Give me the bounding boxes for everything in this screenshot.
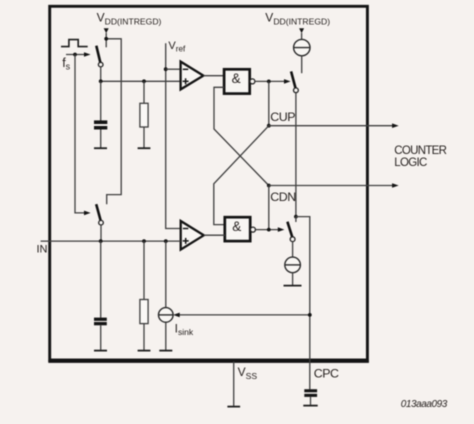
wire CS2 bottom lead bbox=[292, 273, 294, 285]
arrowhead G1 output bbox=[284, 79, 291, 84]
wire below S2 bbox=[100, 225, 102, 241]
arrowhead fs bottom bbox=[84, 211, 91, 216]
svg-text:COUNTER: COUNTER bbox=[394, 145, 446, 157]
arrowhead fs top bbox=[84, 52, 91, 57]
svg-text:IN: IN bbox=[37, 244, 48, 256]
wire VDD2 stub bbox=[301, 33, 303, 39]
chip boundary bottom edge thickening bbox=[48, 360, 369, 363]
wire CDN down to G2 output node bbox=[268, 186, 270, 230]
junction dot IN at R2 bbox=[142, 239, 146, 243]
wire junction to CPC riser bbox=[296, 217, 310, 390]
arrowhead G2 output bbox=[278, 227, 285, 232]
current source Isink top lead bbox=[165, 241, 167, 308]
wire Isink control line bbox=[178, 314, 310, 316]
arrowhead Isink control bbox=[173, 313, 180, 318]
node CUP junction dot bbox=[267, 124, 271, 128]
capacitor CPC plates bbox=[304, 389, 317, 392]
chip boundary box bbox=[50, 6, 368, 360]
wire U2 output bbox=[204, 234, 225, 236]
node VDD(INTREGD) right terminal triangle bbox=[299, 28, 304, 33]
arrowhead CUP bbox=[392, 123, 399, 128]
svg-text:&: & bbox=[232, 71, 241, 86]
svg-text:VSS: VSS bbox=[238, 365, 258, 381]
capacitor C1 plates bbox=[94, 120, 107, 124]
node VDD(INTREGD) left terminal triangle bbox=[104, 28, 109, 33]
capacitor C2 bottom lead bbox=[100, 325, 102, 350]
plus sign U2 bbox=[183, 240, 189, 242]
node CDN junction dot bbox=[267, 184, 271, 188]
ground rail under R1 bbox=[138, 147, 151, 149]
switch S4 (discharge) arm bbox=[287, 222, 292, 237]
current source Isink bbox=[159, 308, 174, 323]
wire below S1 bbox=[100, 67, 102, 82]
resistor R2 bottom lead bbox=[143, 324, 145, 350]
capacitor C1 bottom lead bbox=[100, 130, 102, 148]
switch S2 pivot circle bbox=[99, 220, 104, 225]
current source CS2 (discharge) bbox=[285, 257, 301, 273]
capacitor C2 top lead bbox=[100, 241, 102, 318]
minus sign U1 bbox=[183, 68, 188, 70]
wire G1 lower input from cross-coupling bbox=[214, 87, 269, 185]
wire CUP output line bbox=[269, 125, 394, 127]
ground rail under Isink bbox=[159, 350, 172, 352]
ground rail under C1 bbox=[94, 147, 107, 149]
wire sample node horizontal bbox=[101, 80, 181, 82]
resistor R2 body bbox=[140, 300, 148, 324]
junction dot G1 output bbox=[267, 80, 271, 84]
wire IN line bbox=[41, 240, 181, 242]
junction dot IN at C2 bbox=[99, 239, 103, 243]
junction dot IN at Isink bbox=[164, 239, 168, 243]
switch S1 pivot circle bbox=[98, 62, 103, 67]
wire S4 contact stub bbox=[295, 217, 297, 222]
resistor R1 body bbox=[140, 103, 148, 127]
capacitor C1 top lead bbox=[100, 81, 102, 121]
resistor R2 top lead bbox=[143, 241, 145, 299]
bubble G2 output bbox=[250, 227, 255, 232]
wire G1 output to switch S3 bbox=[255, 80, 287, 82]
switch S2 (sampling, at IN) arm bbox=[96, 204, 100, 220]
junction dot fs bbox=[73, 53, 77, 57]
wire G2 output to switch S4 bbox=[255, 229, 280, 231]
wire Isink bottom lead bbox=[165, 322, 167, 350]
wire VDD1 branch right bbox=[106, 39, 121, 205]
AND gate G2 (bottom) bbox=[225, 217, 250, 241]
svg-text:CPC: CPC bbox=[314, 367, 339, 381]
junction dot Vref / comparator 1 bbox=[164, 67, 168, 71]
junction dot lower-right bbox=[294, 215, 298, 219]
capacitor CPC bottom lead bbox=[310, 397, 312, 405]
wire fs arrow line top bbox=[66, 54, 86, 56]
wire S4 to CS2 bbox=[292, 242, 294, 258]
switch S1 (sampling, top left) arm bbox=[96, 46, 100, 63]
svg-text:013aaa093: 013aaa093 bbox=[401, 399, 448, 410]
wire CS1 to switch S3 contact bbox=[301, 56, 303, 73]
op-amp comparator U1 (top) bbox=[181, 62, 204, 90]
ground rail under R2 bbox=[138, 350, 151, 352]
op-amp comparator U2 (bottom) bbox=[181, 221, 204, 250]
wire G1 output down to CUP bbox=[268, 81, 270, 125]
arrowhead CDN bbox=[392, 183, 399, 188]
ground rail under CS2 bbox=[284, 285, 302, 287]
switch S4 pivot circle bbox=[290, 237, 295, 242]
wire S3 down through CUP/CDN to lower-right junction bbox=[295, 93, 297, 217]
ground rail under CPC cap bbox=[303, 405, 317, 407]
bubble G1 output bbox=[250, 79, 255, 84]
wire cross-coupling CUP to G2 input bbox=[214, 126, 269, 225]
junction dot node1 at R1 bbox=[142, 79, 146, 83]
junction dot node1 at C1 bbox=[99, 79, 103, 83]
pin VSS lead bbox=[233, 362, 235, 406]
svg-text:CDN: CDN bbox=[270, 190, 295, 204]
svg-text:LOGIC: LOGIC bbox=[394, 157, 427, 169]
plus sign U1 bbox=[183, 80, 189, 82]
junction dot G2 output bbox=[267, 228, 271, 232]
node Vref vertical line bbox=[166, 43, 181, 228]
wire VDD1 stub bbox=[105, 33, 107, 47]
AND gate G1 (top) bbox=[224, 69, 250, 93]
switch S3 arm bbox=[291, 71, 295, 88]
rail VSS terminal bbox=[227, 406, 240, 408]
wire U1 output bbox=[203, 75, 224, 77]
wire CDN output line bbox=[269, 185, 394, 187]
junction dot CPC riser bbox=[308, 313, 312, 317]
wire Vref to comparator 1 minus input bbox=[166, 68, 181, 70]
ground rail under C2 bbox=[94, 350, 107, 352]
svg-text:CUP: CUP bbox=[270, 110, 295, 124]
minus sign U2 bbox=[183, 228, 188, 230]
svg-text:&: & bbox=[232, 219, 241, 234]
current source CS1 (charge) bbox=[294, 39, 310, 55]
resistor R1 top lead bbox=[143, 81, 145, 103]
switch S3 pivot circle bbox=[294, 88, 299, 93]
fs pulse waveform symbol bbox=[61, 40, 88, 47]
junction dot VDD1 bbox=[104, 37, 108, 41]
wire fs vertical to lower switch bbox=[75, 55, 86, 213]
resistor R1 bottom lead bbox=[143, 127, 145, 148]
capacitor C2 plates bbox=[94, 318, 107, 321]
